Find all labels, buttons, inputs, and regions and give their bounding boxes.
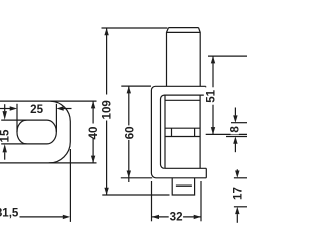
dimension 31,5 (plate width) <box>0 149 70 222</box>
svg-text:25: 25 <box>30 103 43 116</box>
dimension 25 (slot length) <box>0 103 72 132</box>
svg-text:32: 32 <box>170 211 183 224</box>
clamp band (middle collar) <box>165 128 200 136</box>
svg-text:17: 17 <box>231 187 244 200</box>
dimension 32 <box>152 181 202 224</box>
dimension 51 <box>204 56 247 134</box>
svg-text:51: 51 <box>204 89 217 102</box>
bottom tab (mounting lug) <box>172 178 194 195</box>
svg-text:15: 15 <box>0 129 12 142</box>
bracket body (right view) <box>151 86 206 178</box>
dimension 15 (slot height) <box>0 104 12 160</box>
plate outline (left view) <box>0 101 97 163</box>
pin (top cylinder of right view) <box>167 28 201 87</box>
slot (oblong hole) <box>1 120 56 144</box>
dimension 109 (overall height) <box>101 28 170 195</box>
dimension 8 <box>226 108 247 153</box>
svg-text:40: 40 <box>87 127 100 140</box>
dimension 17 <box>231 169 247 223</box>
svg-text:31,5: 31,5 <box>0 207 19 220</box>
svg-text:60: 60 <box>123 126 136 139</box>
svg-text:109: 109 <box>101 100 114 120</box>
dimension 60 <box>121 86 152 182</box>
svg-text:8: 8 <box>229 126 242 133</box>
dimension 40 (plate height) <box>87 101 100 163</box>
